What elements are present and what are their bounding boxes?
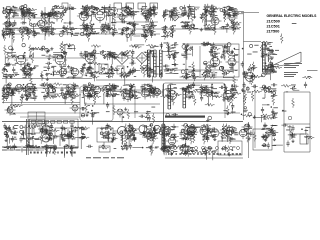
svg-text:21C500: 21C500 [267,20,280,24]
svg-text:21C501: 21C501 [267,25,280,29]
svg-text:GENERAL ELECTRIC MODELS: GENERAL ELECTRIC MODELS [267,14,318,18]
svg-text:21T500: 21T500 [267,30,280,34]
